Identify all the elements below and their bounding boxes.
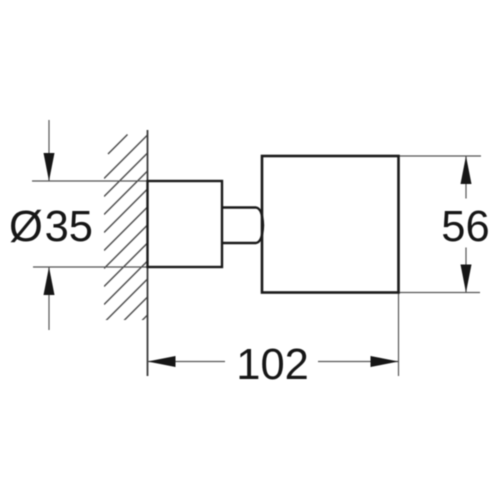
svg-text:Ø: Ø [9, 203, 43, 251]
svg-text:35: 35 [45, 203, 93, 251]
svg-text:56: 56 [441, 203, 489, 251]
svg-text:102: 102 [236, 341, 309, 389]
